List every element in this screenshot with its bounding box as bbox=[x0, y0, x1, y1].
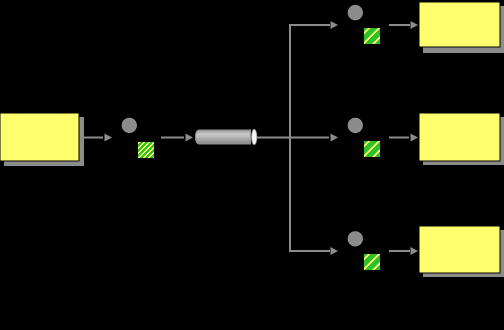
wire channel to middle receiver bbox=[257, 137, 329, 139]
message data square bottom bbox=[364, 254, 380, 270]
message ball left bbox=[122, 118, 137, 133]
receiver box middle bbox=[419, 113, 500, 161]
message ball middle bbox=[348, 118, 363, 133]
wire message to channel bbox=[161, 137, 184, 139]
receiver box middle shadow bbox=[423, 117, 504, 165]
channel cylinder cap bbox=[252, 129, 257, 144]
wire top message to receiver box bbox=[389, 24, 410, 26]
message ball bottom bbox=[348, 232, 363, 247]
receiver box bottom shadow bbox=[423, 230, 504, 277]
message data square left bbox=[138, 142, 154, 158]
receiver box bottom bbox=[419, 226, 500, 273]
receiver box top shadow bbox=[423, 6, 504, 53]
wire bus to top receiver bbox=[289, 24, 330, 26]
wire sender to message bbox=[80, 137, 103, 139]
message data square middle bbox=[364, 141, 380, 157]
wire bus to bottom receiver bbox=[289, 250, 330, 252]
receiver box top bbox=[419, 2, 500, 47]
distribution bus vertical wire bbox=[289, 25, 291, 251]
channel cylinder body bbox=[196, 130, 251, 144]
sender box bbox=[0, 113, 79, 161]
message ball top bbox=[348, 5, 363, 20]
message data square top bbox=[364, 28, 380, 44]
wire bottom message to receiver box bbox=[389, 250, 410, 252]
sender box shadow bbox=[4, 117, 84, 166]
wire middle message to receiver box bbox=[389, 137, 409, 139]
